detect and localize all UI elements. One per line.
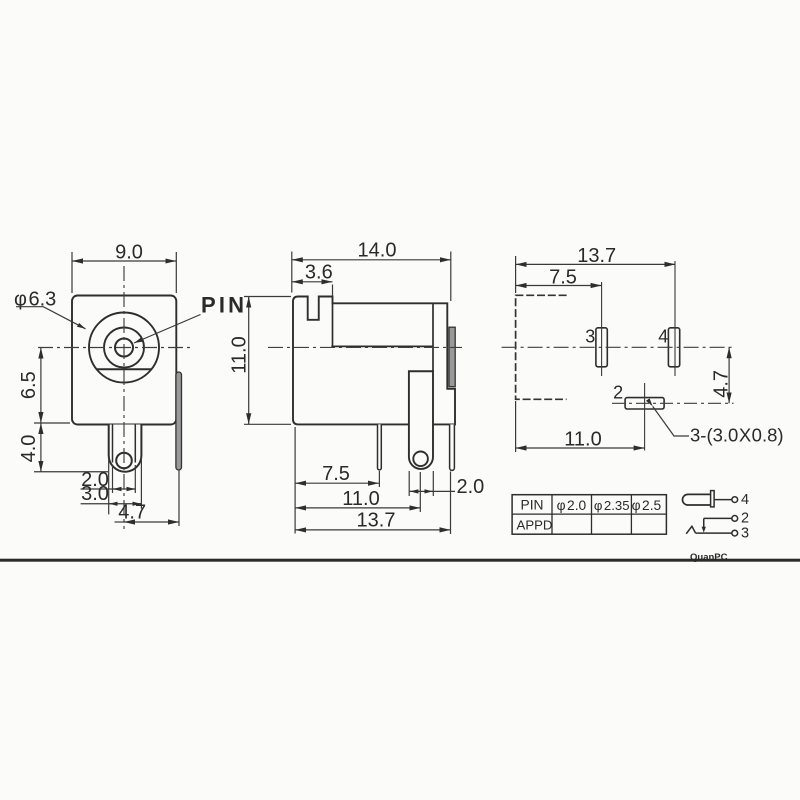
table cell APPD [517, 518, 553, 533]
front middle circle [104, 328, 144, 368]
front inner circle [115, 339, 133, 357]
pad 3 extension line [601, 282, 603, 376]
svg-text:4.0: 4.0 [18, 435, 40, 463]
SYMBOL GROUP [683, 491, 750, 542]
front body outline [72, 296, 176, 425]
table frame [512, 495, 666, 535]
svg-text:4.7: 4.7 [118, 502, 146, 524]
leader 3-(3.0x0.8) [653, 406, 784, 445]
dimension 3.6 [292, 261, 333, 296]
svg-text:11.0: 11.0 [229, 336, 251, 373]
dimension 14.0 [292, 240, 451, 302]
svg-text:2.0: 2.0 [457, 476, 485, 498]
svg-text:PIN: PIN [201, 293, 247, 318]
label PIN with leader [134, 293, 247, 344]
side internal right column edge [432, 303, 434, 371]
side middle thin pin [378, 424, 382, 469]
svg-text:2: 2 [741, 511, 749, 527]
svg-text:2: 2 [613, 382, 623, 402]
svg-text:14.0: 14.0 [358, 240, 397, 262]
table cell PIN [521, 498, 544, 513]
side internal flange edge [332, 303, 334, 346]
dimension 4.0 [18, 423, 108, 472]
svg-text:7.5: 7.5 [322, 463, 350, 485]
side gray contact tab [449, 327, 455, 387]
pad 4 extension line [674, 261, 676, 376]
front vertical centerline [123, 266, 125, 529]
table cell phi2.5 [632, 498, 662, 513]
dimension 11.0 (footprint) [516, 401, 645, 452]
svg-text:PIN: PIN [521, 498, 544, 513]
side wide pin with hole [409, 371, 433, 469]
bottom separator line [0, 552, 800, 563]
pad 2 vertical extension line [644, 383, 646, 451]
dimension 2.0 (front) [81, 465, 136, 493]
svg-text:3: 3 [741, 525, 749, 541]
dimension 11.0 height (between views) [229, 297, 292, 425]
dimension 11.0 (side bottom) [295, 472, 420, 512]
footprint horizontal centerline [502, 346, 734, 348]
svg-text:3-(3.0X0.8): 3-(3.0X0.8) [690, 425, 784, 446]
side right thin pin [450, 424, 455, 470]
symbol pin 4 barrel [683, 494, 711, 505]
table cell phi2.0 [557, 498, 587, 513]
svg-text:3: 3 [585, 326, 595, 346]
svg-text:QuanPC: QuanPC [690, 552, 728, 563]
pad label 2 [613, 382, 623, 402]
dimension 6.5 [18, 348, 41, 424]
svg-text:φ2.35: φ2.35 [594, 498, 630, 513]
dimension 7.5 (footprint) [516, 266, 602, 288]
symbol spring contact zigzag [686, 526, 695, 534]
dimension 2.0 (side pin thickness) [409, 471, 484, 498]
svg-text:φ2.0: φ2.0 [557, 498, 587, 513]
svg-text:11.0: 11.0 [342, 488, 379, 510]
svg-text:11.0: 11.0 [564, 429, 601, 451]
symbol switch vertical link [702, 518, 706, 532]
footprint dashed body outline [516, 295, 567, 399]
SIDE VIEW GROUP [229, 240, 485, 535]
svg-text:3.6: 3.6 [305, 261, 333, 283]
front bottom tab hole [116, 453, 132, 469]
pad label 3 [585, 326, 595, 346]
pad 4 [668, 328, 679, 367]
dimension 9.0 [72, 242, 176, 294]
label phi6.3 with leader [14, 289, 86, 329]
dimension 7.5 (side) [295, 427, 379, 534]
svg-text:7.5: 7.5 [549, 266, 577, 288]
symbol pin 2 lead and terminal [704, 511, 749, 527]
side horizontal centerline [268, 346, 462, 348]
symbol pin 4 crossbar [711, 491, 715, 507]
side internal barrel bottom line [331, 345, 433, 347]
pad 3 [596, 328, 607, 367]
svg-text:φ2.5: φ2.5 [632, 498, 662, 513]
front horizontal centerline [38, 347, 192, 349]
table cell phi2.35 [594, 498, 630, 513]
svg-text:9.0: 9.0 [115, 242, 143, 264]
svg-text:4: 4 [741, 492, 749, 508]
svg-text:6.5: 6.5 [18, 371, 40, 399]
dimension 3.0 (front) [81, 458, 142, 514]
dimension 4.7 (footprint) [711, 347, 733, 403]
pad 2 horizontal centerline extension [612, 402, 734, 404]
svg-text:3.0: 3.0 [81, 483, 109, 505]
front side tab (right terminal) [176, 372, 182, 470]
front outer circle [89, 313, 159, 383]
pad label 4 [658, 326, 668, 346]
svg-text:13.7: 13.7 [357, 510, 396, 532]
symbol pin 3 lead and terminal [696, 525, 749, 541]
TABLE GROUP [512, 495, 666, 535]
pad 2 [625, 398, 664, 409]
dimension 13.7 (side bottom) [295, 472, 450, 535]
svg-text:13.7: 13.7 [577, 245, 616, 267]
svg-text:APPD: APPD [517, 518, 553, 533]
dimension 4.7 (front) [115, 470, 180, 526]
dimension 13.7 (footprint) [516, 245, 676, 293]
svg-text:4.7: 4.7 [711, 370, 733, 398]
side body outline [293, 297, 455, 425]
front chord line [97, 368, 152, 370]
FOOTPRINT GROUP [502, 245, 784, 452]
front bottom tab [109, 425, 142, 472]
symbol pin 4 lead and terminal [714, 492, 749, 508]
FRONT VIEW GROUP [14, 242, 247, 530]
svg-text:4: 4 [658, 326, 668, 346]
